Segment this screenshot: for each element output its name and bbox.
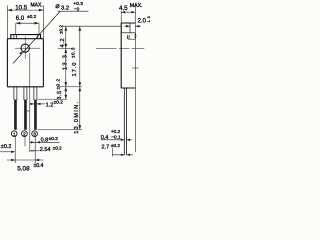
svg-text:13.0MIN.: 13.0MIN. [74, 101, 80, 134]
pin number 2 [22, 131, 28, 137]
svg-text:±0.2: ±0.2 [27, 14, 36, 19]
lead 3 shoulder [34, 87, 37, 100]
svg-text:2.7: 2.7 [102, 145, 110, 151]
svg-text:±0.3: ±0.3 [71, 47, 76, 58]
dimension 2.54 +-0.2 [30, 146, 62, 154]
svg-text:2.54: 2.54 [40, 147, 51, 153]
pin number 3 [32, 131, 38, 137]
dimension 0.8 +-0.2 [30, 136, 60, 144]
hole centerline horizontal [15, 47, 40, 49]
svg-text:10.5: 10.5 [15, 4, 28, 11]
ladder dimension arrows [134, 33, 137, 39]
svg-text:5.08: 5.08 [17, 165, 30, 172]
svg-text:MAX.: MAX. [31, 3, 43, 9]
extension tick lead shoulder end [38, 98, 67, 100]
front view body outline [7, 39, 43, 87]
lead 1 pin [14, 100, 17, 130]
mounting hole [21, 44, 29, 52]
svg-text:⌀: ⌀ [55, 3, 59, 10]
hole diameter label 3.2 +0.3 -0 [55, 1, 83, 12]
side view body outline [121, 23, 135, 88]
side view lead [124, 88, 126, 155]
extension line lead1 below [14, 136, 16, 163]
dimension 2.7 +-0.2 lead to back face [102, 143, 133, 156]
dimension 6.0 +-0.2 [16, 14, 39, 34]
svg-text:±0.2: ±0.2 [54, 100, 64, 106]
svg-text:−0: −0 [74, 6, 80, 12]
svg-text:1: 1 [13, 132, 16, 137]
small hidden mark [128, 35, 130, 39]
front view tab [11, 35, 41, 39]
tick on ladder [132, 67, 139, 69]
svg-text:+0.3: +0.3 [73, 1, 83, 7]
svg-text:1.2: 1.2 [46, 102, 54, 108]
lead 2 pin [24, 100, 27, 130]
label +-0.2 at left edge [0, 144, 15, 153]
hole centerline vertical [24, 37, 26, 59]
dimension 1.2 +-0.2 [30, 100, 63, 109]
svg-text:−0.1: −0.1 [111, 135, 121, 140]
extension line lead3 below [34, 136, 36, 163]
lead 1 shoulder [14, 87, 17, 100]
center reference line between leads [29, 53, 31, 152]
side view internal tab plane [129, 23, 131, 33]
dimension 0.4 +0.2 -0.1 lead thickness [101, 129, 132, 141]
svg-text:MAX.: MAX. [130, 3, 143, 9]
extension tick lead tips [38, 129, 83, 131]
side view internal step line [121, 32, 135, 34]
extension tick hole center right [58, 47, 72, 49]
svg-text:3: 3 [33, 132, 36, 137]
front view notch right [38, 35, 41, 39]
svg-text:−0: −0 [147, 19, 150, 23]
lead 2 shoulder [24, 87, 27, 100]
side view hole centerline [96, 48, 144, 50]
dimension 3.5 +-0.2 vertical [56, 78, 68, 99]
svg-text:±0.2: ±0.2 [49, 136, 59, 142]
svg-text:±0.2: ±0.2 [1, 144, 12, 150]
pin number 1 [11, 131, 17, 137]
svg-text:±0.2: ±0.2 [56, 78, 61, 89]
svg-text:4.2: 4.2 [60, 38, 66, 48]
svg-text:13.3: 13.3 [63, 54, 69, 70]
svg-text:2.0: 2.0 [138, 19, 147, 25]
right reference ladder line (back face extension) [134, 4, 136, 152]
dimension 11.0 MIN vertical [74, 87, 81, 134]
extension tick body bottom [58, 86, 82, 88]
dimension 10.5 MAX [7, 3, 43, 39]
svg-text:±0.2: ±0.2 [111, 143, 120, 148]
dimension 5.08 +-0.4 [7, 159, 44, 173]
svg-text:4.5: 4.5 [119, 5, 128, 12]
svg-text:0.4: 0.4 [101, 135, 109, 141]
extension tick step lower [128, 38, 135, 40]
tick lead2 right edge [27, 110, 30, 112]
dimension 13.3 vertical [63, 48, 69, 86]
svg-text:17.0: 17.0 [72, 62, 78, 77]
dimension 17.0 +-0.3 vertical [71, 26, 82, 87]
svg-text:3.2: 3.2 [61, 5, 69, 11]
extension line lead2 below [24, 136, 26, 146]
lead 3 pin [34, 100, 37, 130]
long extension line top reference [62, 25, 121, 27]
svg-text:±0.2: ±0.2 [59, 25, 64, 34]
front view notch left [14, 35, 17, 39]
dimension 4.2 +-0.2 vertical [59, 25, 68, 49]
dimension 2.0 arrows horizontal [125, 16, 152, 28]
svg-text:±0.2: ±0.2 [53, 146, 62, 151]
svg-text:+0.2: +0.2 [111, 129, 121, 134]
svg-text:6.0: 6.0 [16, 16, 25, 22]
svg-text:3.5: 3.5 [57, 90, 63, 99]
svg-text:0.8: 0.8 [41, 138, 49, 144]
svg-text:±0.4: ±0.4 [34, 163, 44, 169]
dimension 4.5 MAX [119, 3, 142, 23]
svg-text:2: 2 [23, 132, 26, 137]
leader line to hole [13, 11, 89, 63]
